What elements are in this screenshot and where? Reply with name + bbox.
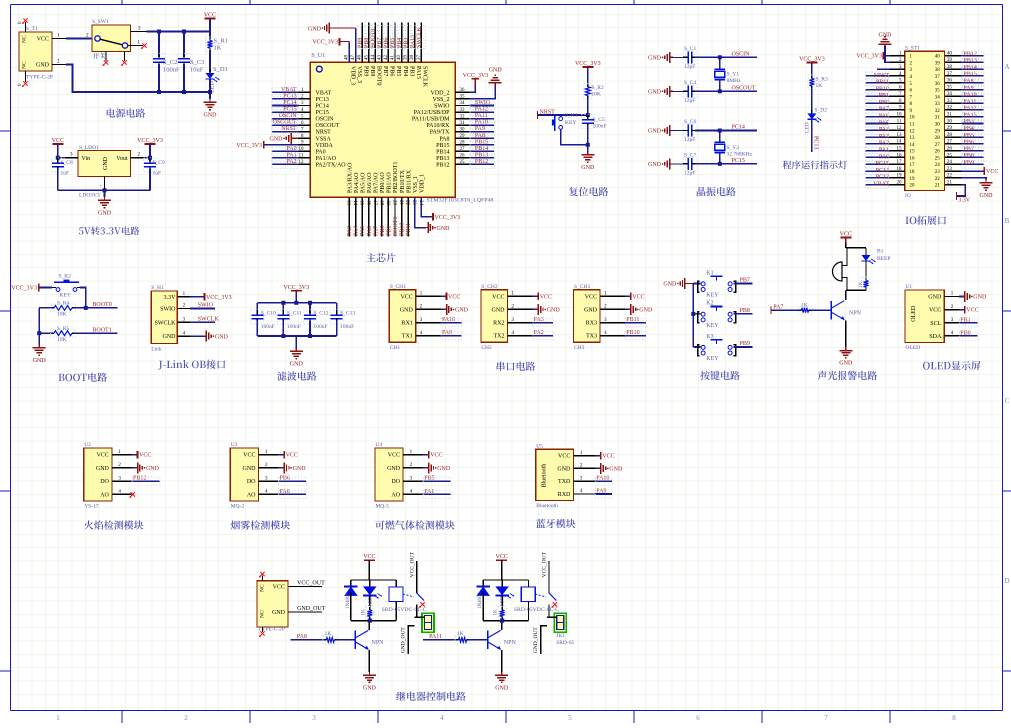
svg-text:PB8: PB8 xyxy=(740,308,750,314)
svg-text:OLED: OLED xyxy=(911,305,917,322)
svg-text:BEEP: BEEP xyxy=(877,256,890,262)
resistor R5 10K xyxy=(39,332,52,334)
svg-text:VCC: VCC xyxy=(540,294,552,300)
svg-text:PC13: PC13 xyxy=(812,136,818,149)
caption fuwei dianlu xyxy=(569,187,608,196)
svg-text:GND: GND xyxy=(387,466,401,472)
pin 20 of U1 xyxy=(394,197,396,237)
svg-text:PC14: PC14 xyxy=(316,104,329,110)
wire collector xyxy=(501,621,503,631)
svg-text:NRST: NRST xyxy=(540,110,556,116)
svg-text:1K: 1K xyxy=(816,83,823,89)
svg-text:PB0: PB0 xyxy=(380,226,386,236)
svg-text:PA12/USB/DP: PA12/USB/DP xyxy=(414,110,450,116)
svg-text:GND: GND xyxy=(146,466,160,472)
resistor 1K base xyxy=(457,639,459,641)
svg-text:4: 4 xyxy=(440,714,444,722)
svg-text:VCC_3V3: VCC_3V3 xyxy=(206,295,232,301)
net 3.3V at pin 21 xyxy=(957,185,966,196)
svg-text:37: 37 xyxy=(947,72,953,77)
caption jingzhen dianlu xyxy=(697,187,736,196)
caption lanya mokuai xyxy=(536,519,576,528)
ground GND at S_CH2 pin 2 xyxy=(532,308,538,310)
svg-text:GND: GND xyxy=(648,162,662,168)
svg-text:PB9: PB9 xyxy=(740,341,750,347)
svg-text:IO: IO xyxy=(905,193,911,199)
svg-text:PA6: PA6 xyxy=(879,114,889,120)
svg-text:PA2/TX/AO: PA2/TX/AO xyxy=(316,162,347,168)
svg-text:PA5: PA5 xyxy=(360,226,366,236)
svg-text:PB11: PB11 xyxy=(406,223,412,236)
pin 1 of ST1 xyxy=(889,55,905,57)
svg-text:S_CH1: S_CH1 xyxy=(390,284,406,290)
svg-text:SWIO: SWIO xyxy=(160,307,176,313)
ground GND xyxy=(368,672,370,675)
pin 16 of U1 xyxy=(368,197,370,237)
net PA11 xyxy=(961,102,983,104)
net PC14 xyxy=(720,130,757,132)
svg-text:26: 26 xyxy=(947,146,953,151)
svg-text:12: 12 xyxy=(910,129,916,134)
caption keran qiti jiance mokuai xyxy=(375,520,454,529)
svg-text:31: 31 xyxy=(947,113,953,118)
svg-text:VBAT: VBAT xyxy=(316,90,332,96)
svg-text:1K: 1K xyxy=(457,631,464,637)
svg-text:PA0: PA0 xyxy=(280,489,290,495)
svg-text:GND: GND xyxy=(243,466,257,472)
svg-text:GND: GND xyxy=(204,113,218,119)
net PC15 xyxy=(271,111,298,113)
wire S_C7 to crystal xyxy=(695,163,720,165)
svg-text:OLED: OLED xyxy=(905,345,920,351)
net PB13 xyxy=(961,61,983,63)
net OSCIN xyxy=(271,118,298,120)
transistor Q1 NPN xyxy=(830,301,832,319)
pin 6 of U1 xyxy=(299,124,311,126)
svg-text:5: 5 xyxy=(568,714,572,722)
svg-text:GND: GND xyxy=(455,308,469,314)
svg-text:38: 38 xyxy=(947,65,953,70)
svg-text:36: 36 xyxy=(460,88,466,93)
svg-text:S_CH2: S_CH2 xyxy=(481,284,497,290)
svg-text:GND: GND xyxy=(609,467,623,473)
svg-text:PB12: PB12 xyxy=(436,162,449,168)
svg-text:GND: GND xyxy=(663,282,677,288)
wire VCC rail top xyxy=(147,32,211,39)
net PC13 xyxy=(811,120,813,152)
net PA11 xyxy=(470,118,494,120)
svg-text:VCC: VCC xyxy=(558,454,570,460)
svg-text:14: 14 xyxy=(910,143,916,148)
svg-text:BOOT1: BOOT1 xyxy=(393,217,399,236)
pin 7 of ST1 xyxy=(889,95,905,97)
svg-text:RX3: RX3 xyxy=(586,321,597,327)
module S_CH3 xyxy=(574,290,601,343)
svg-text:AO: AO xyxy=(391,492,400,498)
svg-text:GND: GND xyxy=(437,466,451,472)
pin 3 of S_CH1 xyxy=(416,322,441,324)
svg-text:AO: AO xyxy=(247,492,256,498)
svg-text:PB9: PB9 xyxy=(964,160,974,166)
svg-text:PA7: PA7 xyxy=(879,107,889,113)
LED D3 xyxy=(865,248,867,255)
net PB7 xyxy=(961,150,983,152)
svg-text:PB6: PB6 xyxy=(384,38,390,48)
net PA10 xyxy=(470,124,494,126)
ground GND at S_CH1 pin 2 xyxy=(441,308,447,310)
pin 41 of U1 xyxy=(394,23,396,63)
svg-text:PB5: PB5 xyxy=(390,38,396,48)
svg-text:KEY: KEY xyxy=(706,323,719,329)
svg-text:VSS_3: VSS_3 xyxy=(356,66,362,83)
caption chengxu yunxing zhishideng xyxy=(783,160,848,169)
svg-text:PB4: PB4 xyxy=(397,38,403,48)
svg-text:S_LDO1: S_LDO1 xyxy=(79,145,99,151)
svg-text:VCC: VCC xyxy=(243,453,255,459)
wire top rail xyxy=(257,302,336,304)
net PB6 xyxy=(961,143,983,145)
svg-text:GND: GND xyxy=(33,358,47,364)
svg-text:VCC_3V3: VCC_3V3 xyxy=(283,285,309,291)
svg-text:CH1: CH1 xyxy=(390,345,401,351)
net PC14 xyxy=(271,105,298,107)
pin 37 of U1 xyxy=(420,23,422,63)
net PA1 xyxy=(423,493,451,495)
caption BOOT dianlu xyxy=(59,373,107,382)
svg-text:RXD: RXD xyxy=(558,492,571,498)
module U4 xyxy=(375,448,403,501)
wire K2 to BOOT0 xyxy=(80,288,86,308)
net PA7 xyxy=(771,309,799,311)
svg-text:S_C4: S_C4 xyxy=(684,80,696,86)
header H1 J-Link xyxy=(151,291,177,343)
svg-text:11: 11 xyxy=(897,119,902,124)
pin 3 of U1 xyxy=(944,322,959,324)
ground GND xyxy=(845,347,847,350)
svg-text:100nF: 100nF xyxy=(593,124,607,130)
LED relay xyxy=(501,580,503,586)
svg-text:BOOT0: BOOT0 xyxy=(376,66,382,85)
svg-text:GND: GND xyxy=(163,334,177,340)
net PA4 xyxy=(865,129,889,131)
ground GND at VSS_1 xyxy=(415,197,426,228)
svg-text:7: 7 xyxy=(824,714,828,722)
svg-text:12: 12 xyxy=(897,126,903,131)
svg-text:25: 25 xyxy=(460,160,466,165)
pin 37 of ST1 xyxy=(945,75,961,77)
svg-text:TYPE-C-2P: TYPE-C-2P xyxy=(26,75,53,81)
net PA0 xyxy=(278,493,306,495)
pin 4 of U5 xyxy=(573,493,594,495)
wire collector xyxy=(368,621,370,631)
svg-text:20: 20 xyxy=(897,180,903,185)
svg-text:PA12: PA12 xyxy=(964,106,977,112)
svg-text:16: 16 xyxy=(910,156,916,161)
net PB5 xyxy=(961,136,983,138)
svg-text:11: 11 xyxy=(299,154,304,159)
svg-text:A: A xyxy=(1004,63,1009,71)
svg-text:PB10/TX: PB10/TX xyxy=(400,169,406,193)
svg-text:1uF: 1uF xyxy=(61,171,70,177)
svg-text:29: 29 xyxy=(460,134,466,139)
svg-text:SCL: SCL xyxy=(930,321,941,327)
svg-text:SWCLK: SWCLK xyxy=(198,317,220,323)
pin 3 of U1 xyxy=(299,105,311,107)
resistor R4 10K xyxy=(39,307,52,309)
svg-text:GND: GND xyxy=(495,685,509,691)
unconnected pin 4 of U2 xyxy=(131,492,135,496)
wire R2 to node xyxy=(587,98,589,116)
svg-text:VDD_1: VDD_1 xyxy=(419,174,425,193)
pin 15 of U1 xyxy=(361,197,363,237)
ground GND at U2 pin 2 xyxy=(132,467,138,469)
pin 12 of U1 xyxy=(299,163,311,165)
svg-text:VCC: VCC xyxy=(840,232,852,238)
svg-text:NRST: NRST xyxy=(316,130,332,136)
svg-text:PB1: PB1 xyxy=(879,93,889,99)
pin 2 of U1 xyxy=(944,309,959,311)
svg-text:PA7/AO: PA7/AO xyxy=(374,172,380,193)
svg-text:GND: GND xyxy=(272,610,286,616)
svg-text:1K: 1K xyxy=(361,609,366,616)
svg-text:U3: U3 xyxy=(231,442,238,448)
svg-text:33: 33 xyxy=(460,108,466,113)
svg-text:20: 20 xyxy=(910,184,916,189)
svg-text:MQ-2: MQ-2 xyxy=(231,504,245,510)
net PA0 xyxy=(865,156,889,158)
svg-text:GND: GND xyxy=(973,295,987,301)
pin 25 of ST1 xyxy=(945,156,961,158)
pin 28 of U1 xyxy=(455,144,470,146)
pin 39 of ST1 xyxy=(945,61,961,63)
svg-text:15: 15 xyxy=(910,150,916,155)
svg-text:12pF: 12pF xyxy=(684,98,695,104)
svg-text:K1: K1 xyxy=(706,270,713,276)
wire left rail xyxy=(38,308,40,345)
svg-text:8MHz: 8MHz xyxy=(727,78,742,84)
svg-text:15: 15 xyxy=(897,146,903,151)
svg-text:PA11: PA11 xyxy=(964,99,977,105)
svg-text:36: 36 xyxy=(935,82,941,87)
svg-text:PA10/RX: PA10/RX xyxy=(426,123,450,129)
net PB12 xyxy=(961,55,983,57)
pin 3 of H1 net SWCLK xyxy=(177,321,190,323)
svg-text:PC15: PC15 xyxy=(732,158,745,164)
svg-text:PA11/USB/DM: PA11/USB/DM xyxy=(412,117,450,123)
svg-text:100nF: 100nF xyxy=(314,324,328,330)
svg-text:S_T1: S_T1 xyxy=(26,26,38,32)
svg-text:PB5: PB5 xyxy=(424,476,434,482)
connector T2 TYPE-C-2P xyxy=(257,581,288,627)
svg-text:PC15: PC15 xyxy=(316,110,329,116)
net PA9 xyxy=(961,89,983,91)
svg-text:PB3: PB3 xyxy=(964,119,974,125)
svg-text:36: 36 xyxy=(947,79,953,84)
wire GND rail bottom xyxy=(66,65,210,93)
net PB11 xyxy=(625,322,646,324)
net PA10 xyxy=(595,480,612,482)
pin 2 of ST1 xyxy=(889,61,905,63)
svg-text:VDDA: VDDA xyxy=(316,143,334,149)
svg-text:PB6: PB6 xyxy=(280,476,290,482)
svg-text:PA2: PA2 xyxy=(879,141,889,147)
caption zhuxinpian xyxy=(366,253,395,262)
svg-text:1K: 1K xyxy=(858,281,864,288)
svg-text:37: 37 xyxy=(935,75,941,80)
net PA8 xyxy=(961,82,983,84)
svg-text:DO: DO xyxy=(391,479,400,485)
pin 31 of U1 xyxy=(455,124,470,126)
net PB13 xyxy=(470,157,494,159)
svg-text:SDA: SDA xyxy=(929,334,942,340)
svg-text:14: 14 xyxy=(897,140,903,145)
net PA15 xyxy=(961,116,983,118)
svg-text:PB11: PB11 xyxy=(626,317,639,323)
wire S_C6 to crystal xyxy=(695,130,720,132)
svg-text:S_C6: S_C6 xyxy=(684,119,696,125)
svg-text:NPN: NPN xyxy=(849,311,862,317)
junction xyxy=(281,334,285,338)
pin 26 of ST1 xyxy=(945,150,961,152)
svg-text:24: 24 xyxy=(947,160,953,165)
svg-text:13: 13 xyxy=(910,136,916,141)
svg-text:GND: GND xyxy=(36,63,50,69)
net SWIO xyxy=(470,105,494,107)
svg-text:GND_OUT: GND_OUT xyxy=(533,627,539,654)
svg-text:28: 28 xyxy=(460,141,466,146)
svg-text:GND: GND xyxy=(492,307,506,313)
net PB4 xyxy=(961,129,983,131)
net PA9 xyxy=(441,335,462,337)
ground GND at S_CH3 pin 2 xyxy=(625,308,631,310)
svg-text:S_R2: S_R2 xyxy=(592,85,604,91)
power flag VCC at S_CH3 pin 1 xyxy=(625,295,631,297)
pin 3 of SW1 xyxy=(131,31,147,33)
pin 2 of U3 xyxy=(259,467,279,469)
pin 1 of S_CH1 xyxy=(416,295,441,297)
net VCC_3V3 at VDDA xyxy=(265,144,299,146)
svg-text:10: 10 xyxy=(299,147,305,152)
caption yanwu jiance mokuai xyxy=(231,520,291,529)
svg-text:VCC: VCC xyxy=(430,453,442,459)
capacitor C8 1uF xyxy=(57,158,59,162)
svg-text:VCC_OUT: VCC_OUT xyxy=(297,581,325,587)
svg-text:BOOT1: BOOT1 xyxy=(92,327,111,333)
svg-text:BOOT0: BOOT0 xyxy=(371,29,377,48)
svg-text:PA15: PA15 xyxy=(964,112,977,118)
capacitor S_C4 12pF xyxy=(670,90,685,92)
pin 18 of ST1 xyxy=(889,170,905,172)
svg-text:39: 39 xyxy=(404,55,409,61)
svg-text:33: 33 xyxy=(947,99,953,104)
svg-text:PB10: PB10 xyxy=(626,330,639,336)
pin 1 of U2 xyxy=(112,454,132,456)
svg-text:1K: 1K xyxy=(494,609,499,616)
svg-text:40: 40 xyxy=(397,55,402,61)
pin 45 of U1 xyxy=(368,23,370,63)
svg-text:VCC: VCC xyxy=(448,294,460,300)
svg-text:3.3V: 3.3V xyxy=(958,198,971,204)
pin 1 of S_CH2 xyxy=(508,295,533,297)
caption jidianqi kongzhi dianlu xyxy=(396,692,466,701)
svg-text:VCC_3V3: VCC_3V3 xyxy=(575,61,601,67)
svg-text:10K: 10K xyxy=(57,337,67,343)
pin 40 of U1 xyxy=(401,23,403,63)
pin 1 of U1 xyxy=(944,295,959,297)
LED D2 xyxy=(811,109,813,113)
svg-text:PB4: PB4 xyxy=(964,126,974,132)
svg-text:PA4: PA4 xyxy=(354,226,360,236)
svg-text:12pF: 12pF xyxy=(684,170,695,176)
caption anjian dianlu xyxy=(700,371,740,380)
unconnected pin T1 bottom xyxy=(25,71,27,82)
pin 44 of U1 xyxy=(374,23,376,63)
svg-text:VCC: VCC xyxy=(286,453,298,459)
svg-text:VCC: VCC xyxy=(632,294,644,300)
svg-text:KEY: KEY xyxy=(706,356,719,362)
net PA1 xyxy=(865,150,889,152)
svg-text:GND: GND xyxy=(437,226,451,232)
net PA9 xyxy=(470,131,494,133)
net PA12 xyxy=(470,111,494,113)
pin 1 of U4 xyxy=(403,454,423,456)
caption 5V to 3.3V xyxy=(79,226,139,235)
svg-text:VSS_1: VSS_1 xyxy=(413,176,419,193)
caption chuankou dianlu xyxy=(497,362,536,371)
crystal Y2 32.768KHz xyxy=(719,131,721,143)
module U2 xyxy=(84,448,112,501)
pin 2 of S_CH3 xyxy=(600,308,625,310)
svg-text:VCC: VCC xyxy=(400,294,412,300)
svg-text:OSCIN: OSCIN xyxy=(732,51,751,57)
transistor NPN xyxy=(354,631,356,649)
svg-text:VCC: VCC xyxy=(37,37,49,43)
net GND_OUT xyxy=(288,611,295,613)
relay switch xyxy=(535,594,546,597)
svg-text:S_C1: S_C1 xyxy=(684,46,696,52)
svg-text:GND: GND xyxy=(639,308,653,314)
svg-text:PB2/BOOT1: PB2/BOOT1 xyxy=(393,162,399,193)
capacitor C10 100nF xyxy=(256,303,258,314)
wire relay top rail xyxy=(351,579,396,581)
svg-text:TX2: TX2 xyxy=(494,334,505,340)
svg-text:S_K2: S_K2 xyxy=(59,274,72,280)
ground GND xyxy=(104,190,106,197)
resistor 1K base xyxy=(324,639,326,641)
pin 4 of U1 xyxy=(944,335,959,337)
net PC13 xyxy=(865,177,889,179)
svg-text:TX3: TX3 xyxy=(586,334,597,340)
ground GND xyxy=(587,145,589,152)
svg-text:NC: NC xyxy=(260,610,266,618)
net VBAT xyxy=(271,91,298,93)
svg-text:C: C xyxy=(1005,397,1010,405)
wire base xyxy=(811,309,832,311)
svg-text:S_R4: S_R4 xyxy=(57,301,69,307)
pin 30 of ST1 xyxy=(945,123,961,125)
svg-text:PB12: PB12 xyxy=(133,476,146,482)
svg-text:VCC_OUT: VCC_OUT xyxy=(409,551,415,577)
power flag VCC_3V3 at pin 1 xyxy=(884,55,890,57)
net PB0 xyxy=(865,102,889,104)
svg-text:1N4007: 1N4007 xyxy=(478,592,483,609)
svg-text:NC: NC xyxy=(22,35,28,43)
pin 21 of U1 xyxy=(401,197,403,237)
svg-text:20: 20 xyxy=(392,200,397,206)
pin 33 of ST1 xyxy=(945,102,961,104)
pin 36 of ST1 xyxy=(945,82,961,84)
pin 1 of SW1 unconnected xyxy=(128,45,143,47)
